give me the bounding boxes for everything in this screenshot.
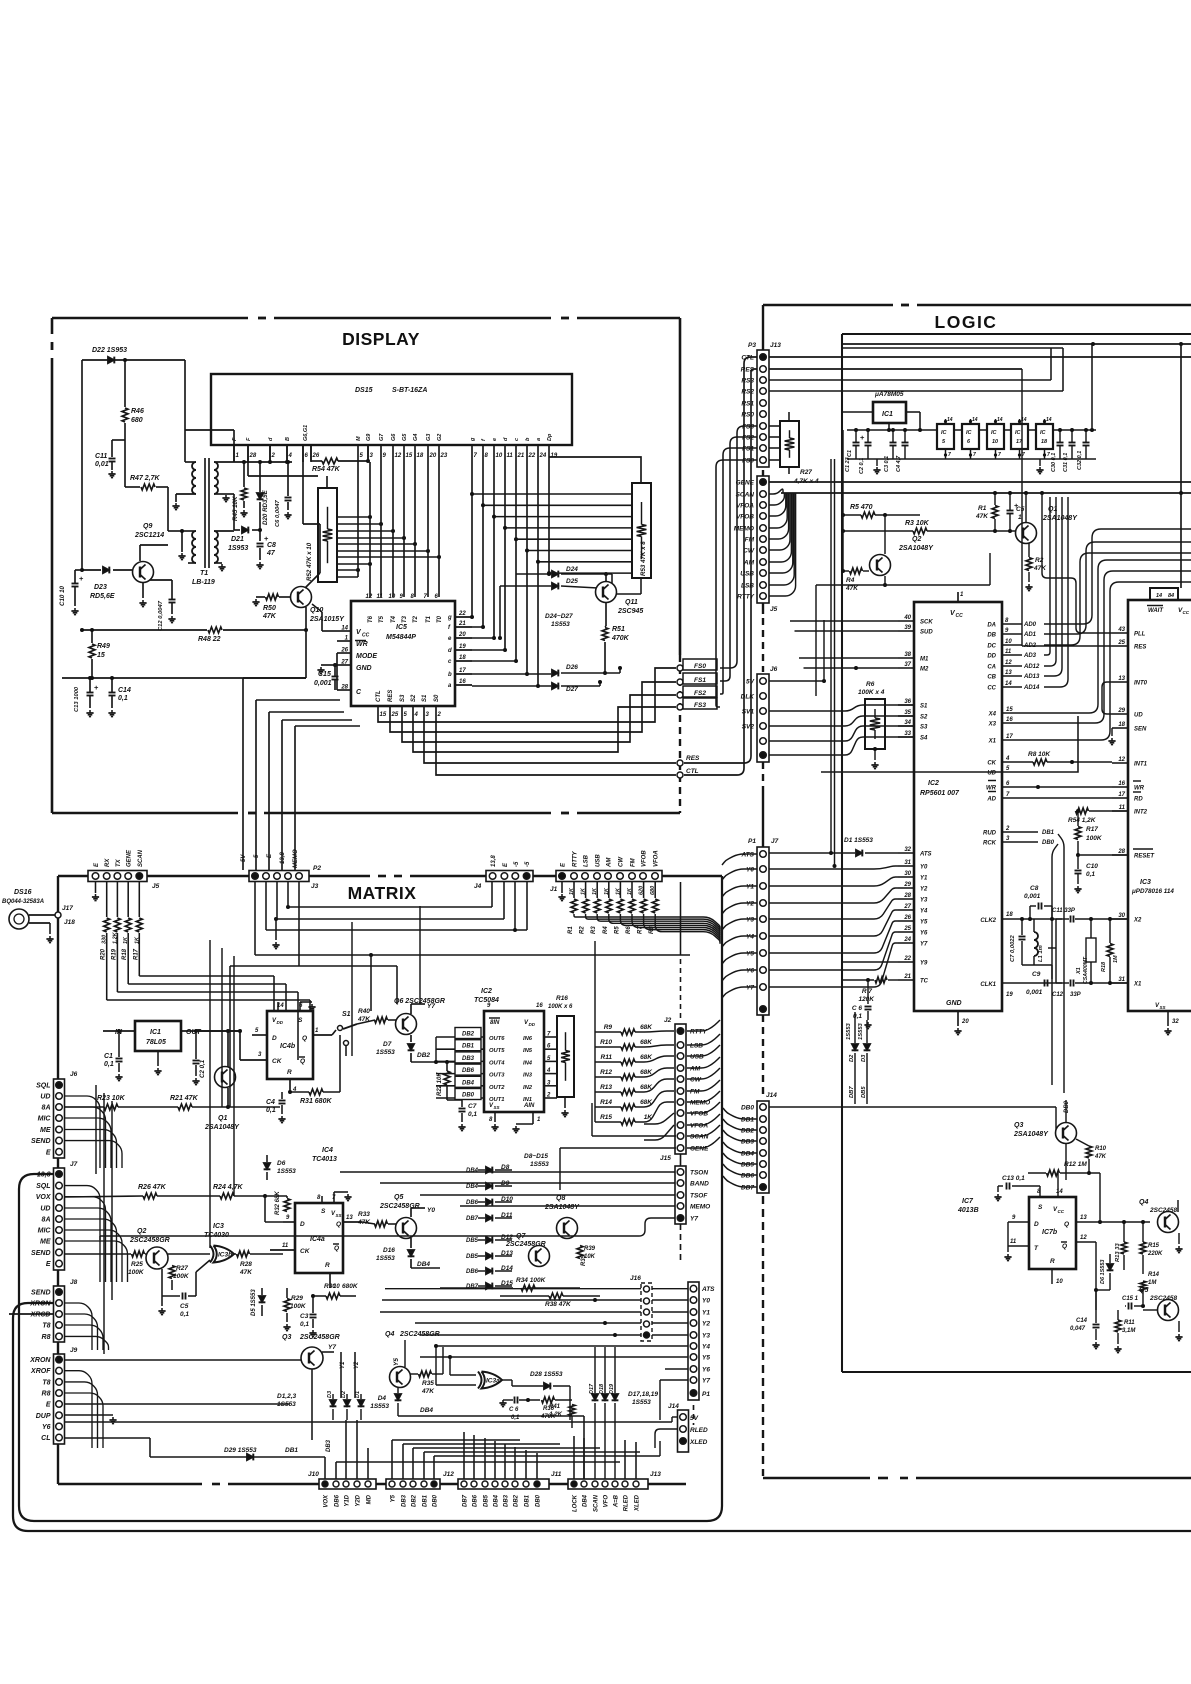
- svg-text:DB5: DB5: [484, 1494, 490, 1507]
- svg-text:R26 47K: R26 47K: [138, 1184, 167, 1191]
- svg-text:g: g: [470, 437, 476, 442]
- svg-text:SS: SS: [336, 1213, 342, 1218]
- svg-text:8A: 8A: [42, 1217, 51, 1224]
- svg-text:22: 22: [903, 956, 911, 962]
- svg-text:AD13: AD13: [1023, 674, 1040, 680]
- svg-text:MATRIX: MATRIX: [348, 883, 417, 903]
- svg-text:R21 47K: R21 47K: [170, 1095, 199, 1102]
- svg-text:2SA1048Y: 2SA1048Y: [544, 1204, 580, 1211]
- svg-text:X4: X4: [988, 712, 997, 718]
- svg-text:11: 11: [1010, 1239, 1017, 1245]
- svg-text:C3 0,1: C3 0,1: [884, 456, 890, 472]
- svg-text:M1: M1: [920, 657, 929, 663]
- svg-text:84: 84: [1168, 593, 1174, 599]
- svg-text:R28: R28: [240, 1261, 252, 1268]
- svg-text:VFO: VFO: [604, 1495, 610, 1508]
- svg-text:14: 14: [341, 626, 348, 632]
- svg-text:11: 11: [507, 453, 514, 459]
- svg-text:DB3: DB3: [504, 1494, 510, 1507]
- svg-text:26: 26: [903, 915, 911, 921]
- svg-text:DD: DD: [277, 1020, 284, 1025]
- svg-text:CC: CC: [987, 686, 996, 692]
- svg-text:DB7: DB7: [741, 1185, 754, 1192]
- svg-text:0,1: 0,1: [266, 1107, 276, 1114]
- svg-text:C10: C10: [1086, 863, 1098, 870]
- svg-text:Y3: Y3: [746, 917, 754, 924]
- svg-text:R25: R25: [131, 1261, 143, 1268]
- svg-text:Y0: Y0: [427, 1207, 435, 1214]
- svg-text:1K: 1K: [627, 887, 633, 895]
- svg-text:28: 28: [249, 453, 257, 459]
- svg-text:DA: DA: [987, 623, 996, 629]
- svg-text:4: 4: [414, 712, 419, 718]
- svg-text:12: 12: [395, 453, 402, 459]
- svg-text:IN6: IN6: [523, 1036, 533, 1042]
- svg-text:T4: T4: [391, 615, 397, 623]
- svg-text:Y6: Y6: [920, 931, 928, 937]
- svg-text:J13: J13: [650, 1471, 661, 1478]
- svg-text:1S953: 1S953: [228, 545, 248, 552]
- svg-text:DB7: DB7: [463, 1494, 469, 1507]
- svg-text:WR: WR: [1134, 786, 1145, 792]
- svg-text:P3: P3: [748, 342, 756, 349]
- svg-text:AD14: AD14: [1023, 685, 1040, 691]
- svg-text:RLED: RLED: [624, 1494, 630, 1511]
- svg-text:32: 32: [1172, 1019, 1179, 1025]
- svg-text:DB2: DB2: [417, 1052, 430, 1059]
- svg-text:22: 22: [458, 611, 466, 617]
- svg-text:68K: 68K: [640, 1054, 653, 1061]
- svg-text:VOX: VOX: [36, 1194, 52, 1201]
- svg-text:R15: R15: [600, 1114, 612, 1121]
- svg-text:P2: P2: [313, 865, 321, 872]
- svg-text:SS: SS: [1160, 1005, 1166, 1010]
- svg-text:2SA1015Y: 2SA1015Y: [309, 616, 345, 623]
- svg-text:M2: M2: [920, 667, 929, 673]
- svg-text:S2: S2: [411, 694, 417, 702]
- svg-text:0,1: 0,1: [468, 1111, 477, 1118]
- svg-text:G6,G1: G6,G1: [303, 425, 309, 441]
- svg-text:18: 18: [459, 655, 466, 661]
- svg-text:11: 11: [1005, 649, 1012, 655]
- svg-text:TC4013: TC4013: [312, 1156, 337, 1163]
- svg-text:D5 1S553: D5 1S553: [251, 1289, 257, 1316]
- svg-text:RES: RES: [388, 690, 394, 702]
- svg-text:R8: R8: [42, 1334, 51, 1341]
- svg-text:C5: C5: [180, 1303, 189, 1310]
- svg-text:16: 16: [1006, 717, 1013, 723]
- svg-text:10K: 10K: [584, 1254, 596, 1260]
- svg-text:T3: T3: [402, 615, 408, 623]
- svg-text:Q1: Q1: [218, 1115, 227, 1122]
- svg-text:D24~D27: D24~D27: [545, 613, 573, 620]
- svg-text:FS0: FS0: [694, 663, 706, 670]
- svg-text:S3: S3: [920, 725, 928, 731]
- svg-text:D28 1S553: D28 1S553: [530, 1371, 563, 1378]
- svg-text:14: 14: [1046, 417, 1052, 423]
- svg-text:S1: S1: [342, 1011, 351, 1018]
- svg-text:1S553: 1S553: [376, 1049, 395, 1056]
- svg-text:D27: D27: [566, 686, 578, 693]
- svg-text:33: 33: [904, 731, 911, 737]
- svg-text:28: 28: [903, 893, 911, 899]
- svg-text:R: R: [325, 1262, 330, 1269]
- svg-text:CK: CK: [987, 761, 996, 767]
- svg-text:34: 34: [904, 720, 911, 726]
- svg-text:G6: G6: [391, 433, 397, 441]
- svg-text:Y6: Y6: [746, 968, 754, 975]
- svg-text:13,8: 13,8: [280, 852, 286, 864]
- svg-text:OUT5: OUT5: [489, 1048, 505, 1054]
- svg-text:C4: C4: [266, 1099, 275, 1106]
- svg-text:G5: G5: [402, 433, 408, 441]
- svg-text:T5: T5: [379, 615, 385, 623]
- svg-text:2SC2458: 2SC2458: [1149, 1207, 1177, 1214]
- svg-text:R24 4,7K: R24 4,7K: [213, 1184, 244, 1191]
- svg-text:D18: D18: [599, 1383, 605, 1394]
- svg-text:10: 10: [496, 453, 503, 459]
- svg-text:MEMO: MEMO: [293, 849, 299, 868]
- svg-text:D22 1S953: D22 1S953: [92, 347, 127, 354]
- svg-text:37: 37: [904, 662, 911, 668]
- svg-text:Q: Q: [1064, 1221, 1069, 1228]
- svg-text:Y6: Y6: [42, 1424, 51, 1431]
- svg-text:OUT3: OUT3: [489, 1073, 505, 1079]
- svg-text:C12 0,0047: C12 0,0047: [158, 600, 164, 631]
- svg-text:S1: S1: [920, 704, 928, 710]
- svg-text:CC: CC: [362, 633, 370, 639]
- svg-text:R10: R10: [600, 1039, 612, 1046]
- svg-text:USB: USB: [690, 1054, 704, 1061]
- svg-text:Q2: Q2: [137, 1228, 146, 1235]
- svg-text:D1 1S553: D1 1S553: [844, 837, 873, 844]
- svg-text:21: 21: [458, 621, 466, 627]
- svg-text:T6: T6: [368, 615, 374, 623]
- svg-text:2: 2: [546, 1093, 551, 1099]
- svg-text:A=B: A=B: [614, 1494, 620, 1508]
- svg-text:2SA1048Y: 2SA1048Y: [898, 545, 934, 552]
- svg-text:RESET: RESET: [1134, 854, 1155, 860]
- svg-text:14: 14: [1056, 1189, 1063, 1195]
- svg-text:R38 47K: R38 47K: [545, 1301, 572, 1308]
- svg-text:DB2: DB2: [741, 1128, 754, 1135]
- svg-text:680: 680: [650, 886, 656, 895]
- svg-text:5V: 5V: [746, 679, 755, 686]
- svg-text:30: 30: [1118, 913, 1125, 919]
- svg-text:R45 10K: R45 10K: [232, 496, 239, 521]
- svg-text:13: 13: [1118, 676, 1125, 682]
- svg-text:R10: R10: [1095, 1146, 1107, 1152]
- svg-text:LSB: LSB: [741, 583, 754, 590]
- svg-text:38: 38: [904, 652, 911, 658]
- svg-text:XLED: XLED: [689, 1439, 708, 1446]
- svg-text:SV1: SV1: [742, 709, 755, 716]
- svg-text:C11 33P: C11 33P: [1052, 908, 1076, 914]
- svg-text:11: 11: [1119, 805, 1126, 811]
- svg-text:DUP: DUP: [36, 1413, 51, 1420]
- svg-text:VFOB: VFOB: [690, 1111, 708, 1118]
- svg-text:C13 1000: C13 1000: [74, 686, 80, 712]
- svg-text:1S553: 1S553: [858, 1022, 864, 1040]
- svg-text:D21: D21: [231, 536, 244, 543]
- svg-text:DB2: DB2: [462, 1032, 475, 1038]
- svg-text:Q4: Q4: [385, 1331, 394, 1338]
- svg-text:R22 10K: R22 10K: [437, 1072, 443, 1096]
- svg-text:L1 1m: L1 1m: [1038, 945, 1044, 962]
- svg-text:XLED: XLED: [635, 1494, 641, 1512]
- svg-text:2SA1048Y: 2SA1048Y: [1042, 515, 1078, 522]
- svg-text:DB4: DB4: [494, 1494, 500, 1507]
- svg-text:10: 10: [389, 594, 396, 600]
- svg-text:10: 10: [1005, 639, 1012, 645]
- svg-text:C1 23: C1 23: [845, 457, 851, 472]
- svg-text:13: 13: [346, 1215, 353, 1221]
- svg-text:X1: X1: [1076, 967, 1082, 975]
- svg-text:DB5: DB5: [466, 1238, 479, 1244]
- svg-text:1M: 1M: [1113, 955, 1119, 963]
- svg-text:IN3: IN3: [523, 1073, 533, 1079]
- svg-text:D26: D26: [566, 664, 578, 671]
- svg-text:R5: R5: [614, 926, 620, 934]
- svg-text:R33: R33: [358, 1211, 370, 1218]
- svg-text:Y3: Y3: [920, 898, 928, 904]
- svg-text:AM: AM: [607, 857, 613, 868]
- svg-text:R9: R9: [604, 1024, 613, 1031]
- svg-text:47K: 47K: [421, 1388, 435, 1395]
- svg-text:13: 13: [1005, 670, 1012, 676]
- svg-text:S4: S4: [920, 736, 928, 742]
- svg-text:Q: Q: [1062, 1243, 1067, 1250]
- svg-text:2SA1048Y: 2SA1048Y: [1013, 1131, 1049, 1138]
- svg-text:R49: R49: [97, 643, 110, 650]
- svg-text:VFOA: VFOA: [654, 850, 660, 867]
- svg-text:C3: C3: [300, 1313, 309, 1320]
- svg-text:DB1: DB1: [423, 1494, 429, 1507]
- svg-text:CLK2: CLK2: [980, 918, 996, 924]
- svg-text:J16: J16: [630, 1275, 641, 1282]
- svg-text:31: 31: [904, 860, 911, 866]
- svg-text:CLK1: CLK1: [980, 982, 996, 988]
- svg-text:7: 7: [948, 452, 951, 458]
- svg-text:J12: J12: [443, 1471, 454, 1478]
- svg-text:D: D: [272, 1035, 277, 1042]
- svg-text:P1: P1: [748, 838, 756, 845]
- svg-text:DS16: DS16: [14, 889, 32, 896]
- svg-text:USB: USB: [740, 571, 754, 578]
- svg-text:Y5: Y5: [391, 1494, 397, 1502]
- svg-text:+: +: [860, 433, 865, 442]
- svg-text:AIN: AIN: [523, 1103, 535, 1109]
- svg-text:27: 27: [340, 660, 348, 666]
- svg-text:27: 27: [903, 904, 911, 910]
- svg-text:OUT6: OUT6: [489, 1036, 505, 1042]
- svg-text:Y4: Y4: [920, 909, 928, 915]
- svg-text:Y7: Y7: [328, 1344, 336, 1351]
- svg-text:Q3: Q3: [282, 1334, 291, 1341]
- svg-text:R27: R27: [800, 469, 812, 476]
- svg-text:J14: J14: [766, 1092, 777, 1099]
- svg-text:R19: R19: [111, 948, 117, 960]
- svg-text:G9: G9: [366, 433, 372, 441]
- svg-text:Y3: Y3: [702, 1333, 710, 1340]
- svg-text:XRCD: XRCD: [30, 1312, 51, 1319]
- svg-text:DS15: DS15: [355, 387, 373, 394]
- svg-text:R: R: [287, 1069, 292, 1076]
- svg-text:1S553: 1S553: [530, 1161, 549, 1168]
- svg-text:DC: DC: [987, 644, 996, 650]
- svg-text:LSB: LSB: [584, 854, 590, 867]
- svg-text:15: 15: [380, 712, 387, 718]
- svg-text:DB4: DB4: [466, 1168, 479, 1174]
- svg-text:AD0: AD0: [1023, 622, 1037, 628]
- svg-text:J2: J2: [664, 1017, 672, 1024]
- svg-text:18: 18: [1006, 912, 1013, 918]
- svg-text:R48 22: R48 22: [198, 636, 221, 643]
- svg-text:DB0: DB0: [462, 1093, 475, 1099]
- svg-text:C 6: C 6: [852, 1005, 863, 1012]
- svg-text:1K: 1K: [569, 887, 575, 895]
- svg-text:28: 28: [1117, 849, 1125, 855]
- svg-text:25: 25: [391, 712, 399, 718]
- svg-text:Y2: Y2: [920, 887, 928, 893]
- svg-text:Y7: Y7: [427, 1003, 435, 1010]
- svg-text:AD3: AD3: [1023, 653, 1037, 659]
- svg-text:ATS: ATS: [701, 1286, 715, 1293]
- svg-text:RES: RES: [1134, 645, 1146, 651]
- svg-text:MD: MD: [367, 1494, 373, 1504]
- svg-text:68K: 68K: [640, 1039, 653, 1046]
- svg-text:R17: R17: [133, 948, 139, 960]
- svg-text:0,1: 0,1: [1086, 871, 1095, 878]
- svg-text:1S553: 1S553: [376, 1255, 395, 1262]
- svg-text:R50: R50: [263, 605, 276, 612]
- svg-text:R3 10K: R3 10K: [905, 520, 930, 527]
- svg-text:DB4: DB4: [462, 1080, 475, 1086]
- svg-text:CK: CK: [300, 1248, 311, 1255]
- svg-text:UD: UD: [40, 1206, 50, 1213]
- svg-text:Q5: Q5: [394, 1194, 403, 1201]
- svg-text:J4: J4: [474, 883, 482, 890]
- svg-text:MIC: MIC: [38, 1228, 52, 1235]
- svg-text:D19: D19: [609, 1383, 615, 1394]
- svg-text:DB1: DB1: [741, 1117, 754, 1124]
- svg-text:BQ044-32583A: BQ044-32583A: [2, 899, 44, 905]
- svg-text:4: 4: [1005, 756, 1010, 762]
- svg-text:14: 14: [1156, 593, 1162, 599]
- svg-text:R31 680K: R31 680K: [300, 1098, 332, 1105]
- svg-text:J13: J13: [770, 342, 781, 349]
- svg-text:26: 26: [312, 453, 320, 459]
- svg-text:7: 7: [1047, 452, 1050, 458]
- svg-text:R39: R39: [584, 1246, 596, 1252]
- svg-text:DB0: DB0: [1064, 1100, 1070, 1113]
- svg-text:UD: UD: [1134, 713, 1143, 719]
- svg-text:LOGIC: LOGIC: [935, 312, 998, 332]
- svg-text:X1: X1: [988, 739, 997, 745]
- svg-text:J1: J1: [550, 886, 558, 893]
- svg-text:1K: 1K: [604, 887, 610, 895]
- svg-text:DB0: DB0: [536, 1494, 542, 1507]
- svg-text:20: 20: [458, 632, 466, 638]
- svg-text:-5: -5: [525, 861, 531, 867]
- svg-text:CC: CC: [1183, 610, 1190, 615]
- svg-text:GENE: GENE: [127, 849, 133, 867]
- svg-text:D29 1S553: D29 1S553: [224, 1447, 257, 1454]
- svg-text:T1: T1: [426, 615, 432, 623]
- svg-text:R52 47K x 10: R52 47K x 10: [306, 542, 313, 581]
- svg-text:R1: R1: [568, 926, 574, 934]
- svg-text:SUD: SUD: [920, 630, 933, 636]
- svg-text:CTL: CTL: [376, 690, 382, 702]
- svg-text:J6: J6: [70, 1071, 78, 1078]
- svg-text:-5: -5: [514, 861, 520, 867]
- svg-text:T0: T0: [437, 615, 443, 623]
- svg-text:J11: J11: [551, 1471, 562, 1478]
- svg-text:20: 20: [429, 453, 437, 459]
- svg-text:RTTY: RTTY: [690, 1029, 708, 1036]
- svg-text:J10: J10: [308, 1471, 319, 1478]
- svg-text:SEN: SEN: [1134, 727, 1147, 733]
- svg-text:R20: R20: [101, 948, 107, 960]
- svg-text:D17,18,19: D17,18,19: [628, 1391, 658, 1398]
- svg-text:RLED: RLED: [690, 1427, 708, 1434]
- svg-text:VFOB: VFOB: [642, 850, 648, 867]
- svg-text:16: 16: [459, 679, 466, 685]
- svg-text:1S553: 1S553: [632, 1399, 651, 1406]
- svg-text:R2: R2: [580, 926, 586, 934]
- svg-text:CA: CA: [987, 665, 996, 671]
- svg-text:35: 35: [904, 710, 911, 716]
- svg-text:FM: FM: [631, 857, 637, 867]
- svg-text:DB1: DB1: [1042, 830, 1055, 836]
- svg-text:R14: R14: [600, 1099, 612, 1106]
- svg-text:8A: 8A: [42, 1105, 51, 1112]
- svg-text:R8: R8: [42, 1391, 51, 1398]
- svg-text:26: 26: [340, 648, 348, 654]
- svg-text:29: 29: [903, 882, 911, 888]
- svg-text:R35: R35: [422, 1380, 434, 1387]
- svg-text:30: 30: [904, 871, 911, 877]
- svg-text:2SC945: 2SC945: [617, 608, 643, 615]
- svg-text:100K x 6: 100K x 6: [548, 1004, 573, 1010]
- svg-text:CL: CL: [41, 1435, 50, 1442]
- svg-text:RTTY: RTTY: [737, 594, 755, 601]
- svg-text:T8: T8: [42, 1323, 50, 1330]
- svg-text:D6 1S553: D6 1S553: [1100, 1260, 1106, 1284]
- svg-text:IC7b: IC7b: [1042, 1229, 1058, 1236]
- svg-text:17: 17: [459, 668, 466, 674]
- svg-text:Y1: Y1: [746, 884, 754, 891]
- svg-text:D16: D16: [383, 1247, 395, 1254]
- svg-text:S0: S0: [434, 694, 440, 702]
- svg-text:AD: AD: [986, 797, 996, 803]
- svg-text:e: e: [492, 438, 498, 441]
- svg-text:J5: J5: [770, 606, 778, 613]
- svg-text:C8: C8: [267, 542, 276, 549]
- svg-text:0,1: 0,1: [511, 1415, 520, 1421]
- svg-text:R32 68K: R32 68K: [275, 1191, 281, 1215]
- svg-text:19: 19: [551, 453, 558, 459]
- svg-text:OUT2: OUT2: [489, 1085, 505, 1091]
- svg-text:MODE: MODE: [356, 653, 377, 660]
- svg-text:XRON: XRON: [29, 1357, 51, 1364]
- svg-text:FS2: FS2: [694, 690, 706, 697]
- svg-text:g: g: [447, 615, 452, 621]
- svg-text:Y4: Y4: [746, 934, 754, 941]
- svg-text:10: 10: [1056, 1279, 1063, 1285]
- svg-text:R15: R15: [1148, 1243, 1160, 1249]
- svg-text:R27: R27: [176, 1265, 188, 1272]
